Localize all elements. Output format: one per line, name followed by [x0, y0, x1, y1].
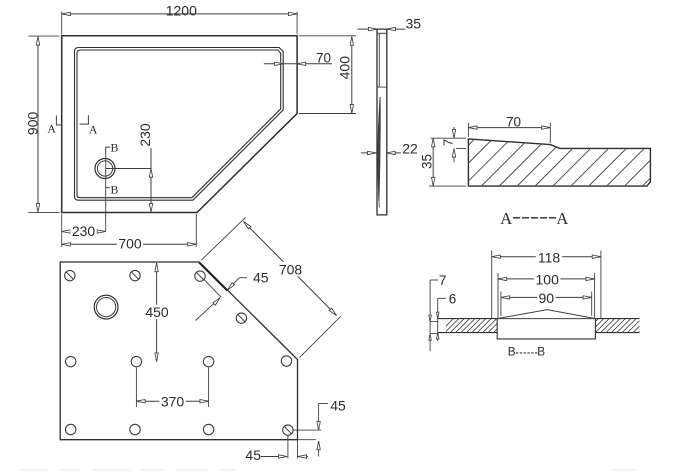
hole row3 mid-right — [203, 424, 213, 434]
thick diagonal segment at cut edge — [199, 262, 227, 290]
hole row3 mid-left — [130, 424, 140, 434]
svg-text:A: A — [500, 209, 512, 228]
dim 700 (left edge to diagonal start) — [62, 243, 197, 245]
bottom view outline — [60, 262, 297, 440]
svg-text:1200: 1200 — [166, 3, 197, 19]
hole on diagonal (slashed) — [236, 313, 246, 323]
B-B tent top — [497, 310, 595, 319]
svg-text:45: 45 — [330, 398, 346, 414]
dim 45 at diagonal: stub line through holes — [204, 279, 222, 297]
svg-text:370: 370 — [161, 393, 185, 409]
top view inner rim outer line — [75, 48, 284, 201]
svg-text:90: 90 — [539, 290, 555, 306]
svg-text:A: A — [47, 122, 56, 136]
svg-text:900: 900 — [25, 112, 41, 136]
svg-text:70: 70 — [506, 114, 521, 129]
dim 35 section A-A — [429, 185, 466, 187]
right extension for 700 — [195, 214, 197, 247]
left extension line below tray — [61, 214, 63, 247]
hole row1 mid (slashed) — [130, 270, 140, 280]
hole row3 left — [66, 424, 76, 434]
hole row2 mid-right — [203, 356, 213, 366]
hole row3 right (slashed) — [283, 425, 293, 435]
extension from B line down to 230 dim — [105, 188, 107, 232]
hole row2 left — [66, 356, 76, 366]
svg-text:35: 35 — [406, 16, 422, 32]
dim 450 vertical — [156, 263, 158, 362]
dim 900 left — [37, 36, 39, 212]
hole row1 right near diagonal (slashed) — [195, 271, 205, 281]
side view curved sliver — [378, 97, 380, 201]
section A-A outline — [468, 139, 650, 186]
dim 1200 top — [62, 13, 297, 15]
faint bottom smudges — [18, 469, 636, 471]
B-B right floor band — [595, 318, 639, 320]
top view outer outline (pentagon tray) — [62, 36, 297, 213]
svg-text:230: 230 — [137, 123, 153, 147]
side view top cap line — [377, 32, 387, 34]
svg-text:450: 450 — [145, 304, 169, 320]
B-B left floor band — [438, 318, 498, 320]
svg-text:7: 7 — [440, 139, 455, 146]
svg-text:35: 35 — [419, 154, 434, 169]
dim 70 rim width top-right — [264, 63, 332, 65]
svg-text:708: 708 — [279, 261, 303, 277]
dim 45 diagonal lower arrow — [196, 298, 221, 321]
svg-text:6: 6 — [449, 292, 457, 307]
dim 70 section A-A — [467, 123, 469, 137]
bottom view drain circle — [94, 295, 118, 319]
dim 230 horizontal (left edge to drain) — [62, 231, 106, 233]
svg-text:B: B — [110, 141, 118, 155]
hole row2 mid-left — [131, 356, 141, 366]
section mark B lower tick — [106, 187, 110, 189]
B-B drain box — [497, 319, 595, 339]
svg-text:230: 230 — [72, 223, 96, 239]
section mark A right — [80, 115, 89, 124]
dim 230 vertical (drain to bottom edge) — [150, 148, 152, 212]
section mark A left — [56, 116, 61, 126]
svg-text:22: 22 — [402, 141, 418, 157]
B-B dim 100 — [497, 273, 499, 319]
svg-text:A: A — [89, 122, 98, 136]
drain circle top view — [95, 159, 115, 179]
svg-text:7: 7 — [439, 273, 447, 288]
svg-text:45: 45 — [253, 269, 269, 285]
svg-text:700: 700 — [118, 236, 142, 252]
svg-text:45: 45 — [245, 447, 261, 463]
svg-text:B: B — [508, 344, 516, 358]
svg-text:B: B — [110, 182, 118, 196]
hole extension vertical bottom — [287, 436, 289, 459]
right edge extension below — [297, 440, 299, 459]
dim 708 along diagonal — [201, 217, 245, 260]
side view inner vertical line — [378, 33, 380, 87]
dim 370 horizontal — [135, 368, 137, 408]
dim 22 side view — [361, 152, 376, 154]
svg-text:400: 400 — [337, 56, 353, 80]
dim 400 right edge — [351, 37, 353, 114]
hole row1 left (slashed) — [65, 270, 75, 280]
svg-text:100: 100 — [536, 271, 560, 287]
section B cut line through drain — [105, 152, 107, 187]
svg-text:70: 70 — [316, 50, 331, 65]
dim 7 section A-A — [431, 137, 466, 139]
svg-text:118: 118 — [538, 250, 561, 266]
side view outline — [377, 29, 387, 215]
section mark B upper tick — [106, 147, 111, 152]
svg-text:A: A — [556, 209, 568, 228]
hole row2 right corner — [281, 356, 291, 366]
svg-text:B: B — [537, 344, 545, 358]
side view divider line — [377, 86, 387, 88]
top view inner rim inner line — [77, 50, 281, 198]
B-B dim 90 — [500, 292, 502, 317]
connector drain to vertical 230 dim — [106, 168, 151, 170]
B-B dim 118 — [491, 251, 493, 319]
dim 35 side view top — [358, 28, 378, 30]
